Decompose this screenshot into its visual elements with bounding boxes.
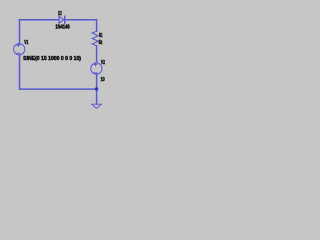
ground (92, 104, 102, 108)
wire right rail above R1 (96, 20, 98, 32)
background (0, 0, 120, 109)
svg-text:5k: 5k (99, 40, 103, 46)
wire top rail right of D2 (65, 19, 97, 21)
wire between R1 and V2 (96, 46, 98, 63)
svg-text:V1: V1 (24, 40, 28, 46)
voltage source V1 (14, 44, 25, 55)
svg-text:10: 10 (101, 77, 105, 83)
svg-text:1N4148: 1N4148 (55, 24, 69, 30)
svg-text:R1: R1 (99, 33, 103, 39)
resistor R1 (92, 31, 98, 46)
svg-text:SINE(0 15 1000 0 0 0 10): SINE(0 15 1000 0 0 0 10) (23, 56, 81, 62)
svg-text:D2: D2 (58, 11, 62, 17)
wire top rail left of D2 (20, 19, 60, 21)
svg-text:V2: V2 (101, 60, 105, 66)
voltage source V2 (91, 63, 102, 74)
wire below V2 to junction and ground (96, 75, 98, 104)
wire bottom rail (20, 88, 97, 90)
diode D2 (59, 16, 65, 23)
junction node (95, 87, 98, 90)
wire left rail below V1 (19, 55, 21, 89)
wire left rail above V1 (19, 20, 21, 44)
